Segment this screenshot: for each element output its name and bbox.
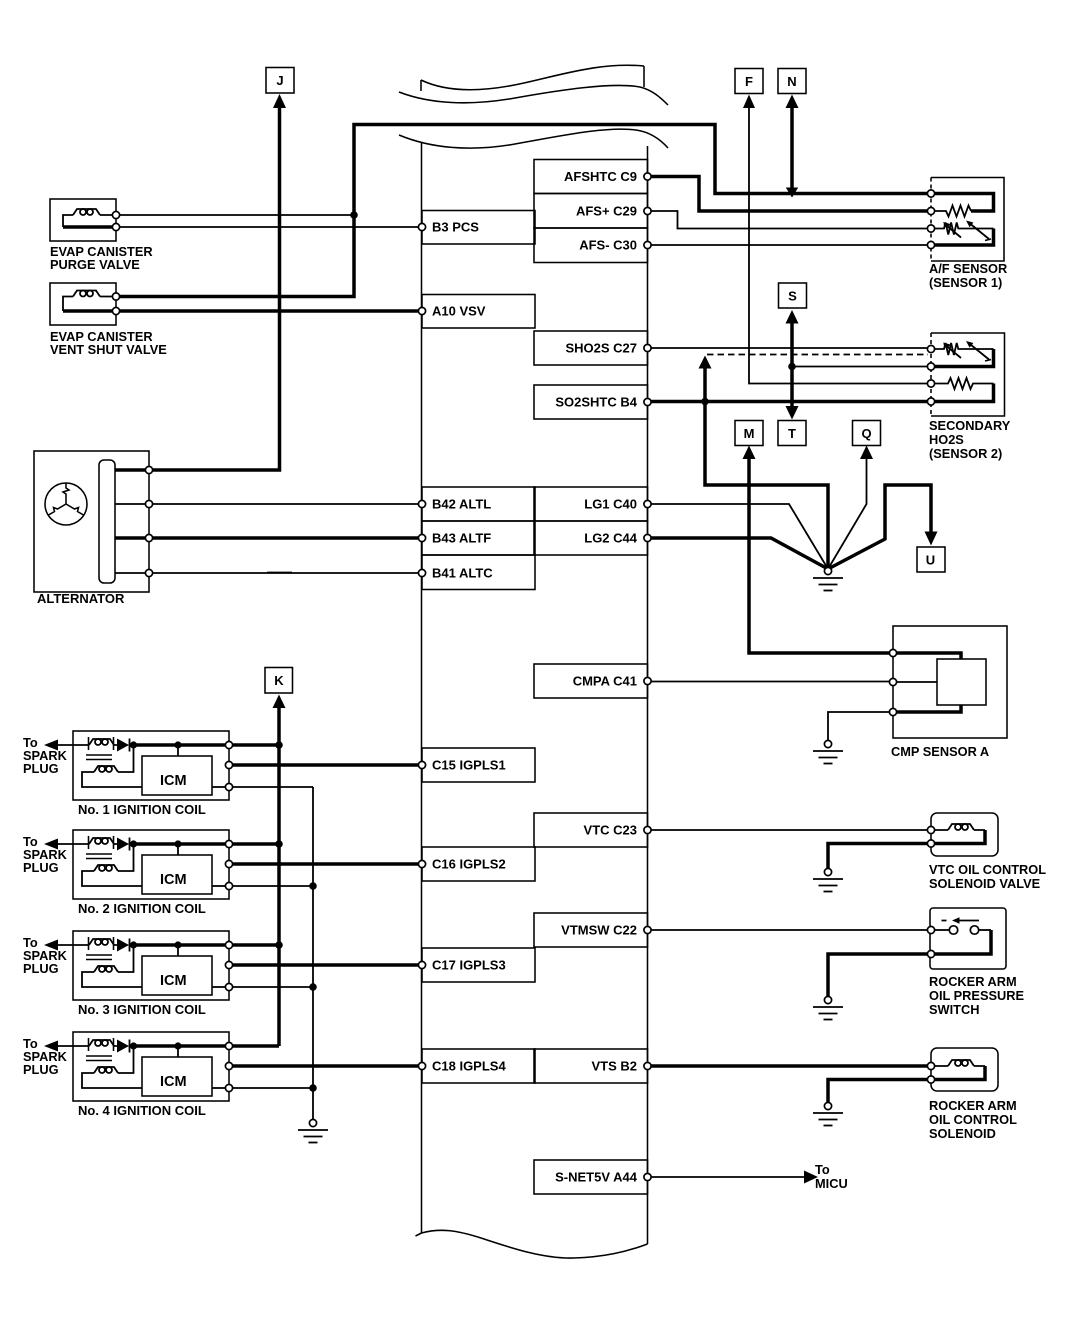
junction coil 2 pin1 / K bus — [275, 840, 283, 848]
ECM body torn top sliver — [399, 65, 668, 105]
svg-text:M: M — [744, 426, 755, 441]
ECM pin box C15 IGPLS1 — [422, 748, 535, 782]
wire F to HO2S pin3 — [749, 105, 927, 384]
wire Q to ground node — [828, 457, 867, 569]
svg-text:VTC OIL CONTROL: VTC OIL CONTROL — [929, 862, 1046, 877]
wire coil 4 pin2 to ECM IGPLS4 (thick) — [233, 1064, 419, 1068]
svg-text:VTS B2: VTS B2 — [591, 1059, 637, 1074]
svg-text:PLUG: PLUG — [23, 761, 59, 776]
svg-text:PLUG: PLUG — [23, 860, 59, 875]
svg-text:B3 PCS: B3 PCS — [432, 220, 479, 235]
ECM pin C9 — [644, 173, 651, 180]
connector J — [266, 68, 294, 109]
connector M — [735, 421, 763, 446]
wire coil 2 pin3 to ground bus — [233, 885, 314, 887]
ECM pin C40 — [644, 500, 651, 507]
ECM pin box C18 IGPLS4 — [422, 1049, 535, 1083]
svg-text:PLUG: PLUG — [23, 961, 59, 976]
svg-text:ROCKER ARM: ROCKER ARM — [929, 974, 1017, 989]
solenoid valve EVAP canister vent shut valve — [50, 283, 167, 357]
ECM pin box B43 ALTF — [422, 521, 535, 555]
ground rocker solenoid — [813, 1102, 843, 1125]
svg-text:ICM: ICM — [160, 1074, 187, 1090]
node To MICU — [815, 1162, 848, 1191]
svg-text:VENT SHUT VALVE: VENT SHUT VALVE — [50, 342, 167, 357]
svg-text:PLUG: PLUG — [23, 1062, 59, 1077]
wire coil 3 pin3 to ground bus — [233, 986, 314, 988]
wire purge valve pin1 to node — [120, 214, 355, 216]
ECM pin box AFS- C30 — [534, 228, 648, 263]
ECM pin box S-NET5V A44 — [534, 1160, 648, 1194]
wire SO2SHTC B4 to HO2S pin4 (thick) — [652, 400, 928, 404]
svg-text:AFS+ C29: AFS+ C29 — [576, 204, 637, 219]
ECM pin box CMPA C41 — [534, 664, 648, 698]
svg-text:SECONDARY: SECONDARY — [929, 418, 1011, 433]
wire coil 4 pin3 to ground bus — [233, 1087, 314, 1089]
svg-text:ICM: ICM — [160, 973, 187, 989]
svg-text:(SENSOR 1): (SENSOR 1) — [929, 275, 1002, 290]
svg-text:AFS- C30: AFS- C30 — [579, 238, 637, 253]
svg-text:ROCKER ARM: ROCKER ARM — [929, 1098, 1017, 1113]
connector T — [778, 421, 806, 446]
shield dashed line — [707, 354, 928, 356]
ECM pin box C16 IGPLS2 — [422, 847, 535, 881]
svg-text:K: K — [274, 673, 284, 688]
junction coil 3 pin3 / ground bus — [309, 983, 317, 991]
solenoid valve EVAP canister purge valve — [50, 199, 153, 272]
ECM pin C41 — [644, 677, 651, 684]
ECM pin box VTMSW C22 — [534, 913, 648, 947]
wire VTS B2 to rocker solenoid (thick) — [652, 1064, 928, 1068]
ECM pin box C17 IGPLS3 — [422, 948, 535, 982]
ECM pin box B42 ALTL — [422, 487, 535, 521]
connector U — [917, 547, 945, 572]
arrow to spark plug No.1 — [44, 740, 58, 751]
svg-text:No. 2 IGNITION COIL: No. 2 IGNITION COIL — [78, 901, 206, 916]
svg-text:B42 ALTL: B42 ALTL — [432, 497, 491, 512]
svg-text:OIL CONTROL: OIL CONTROL — [929, 1112, 1017, 1127]
svg-text:LG2 C44: LG2 C44 — [584, 531, 638, 546]
svg-text:SHO2S C27: SHO2S C27 — [565, 341, 637, 356]
ECM pin B42 — [418, 500, 425, 507]
svg-text:S: S — [788, 289, 797, 304]
wire pressure switch to ground (thick) — [828, 954, 928, 996]
svg-text:ALTERNATOR: ALTERNATOR — [37, 591, 125, 606]
ECM pin box VTS B2 — [534, 1049, 648, 1083]
svg-text:No. 4 IGNITION COIL: No. 4 IGNITION COIL — [78, 1103, 206, 1118]
wire coil 1 pin1 to K bus (thick) — [233, 743, 280, 747]
svg-text:SO2SHTC B4: SO2SHTC B4 — [555, 395, 637, 410]
ECM pin B2 — [644, 1062, 651, 1069]
svg-text:S-NET5V A44: S-NET5V A44 — [555, 1170, 638, 1185]
wire rocker solenoid to ground (thick) — [828, 1080, 928, 1103]
junction S/T line / HO2S pin2 — [788, 363, 796, 371]
connector F — [735, 69, 763, 94]
ECM pin box AFS+ C29 — [534, 194, 648, 229]
ground sensor/logic ground node — [813, 567, 843, 590]
junction purge/vent supply node — [350, 211, 358, 219]
ECM pin box A10 VSV — [422, 295, 535, 329]
connector S — [779, 283, 807, 308]
junction shield branch / SO2SHTC wire — [701, 398, 709, 406]
svg-text:No. 3 IGNITION COIL: No. 3 IGNITION COIL — [78, 1002, 206, 1017]
ground CMP sensor — [813, 740, 843, 763]
wire K bus down ignition coils (thick) — [277, 707, 281, 1046]
CMP sensor A — [889, 626, 1007, 759]
ECM pin A44 — [644, 1173, 651, 1180]
wire VTMSW C22 to pressure switch — [652, 929, 928, 931]
svg-text:F: F — [745, 74, 753, 89]
connector N — [778, 69, 806, 94]
wire AFS+ C29 to A/F sensor pin3 — [652, 211, 928, 229]
svg-text:ICM: ICM — [160, 773, 187, 789]
wire VTC C23 to solenoid valve — [652, 829, 928, 831]
svg-text:HO2S: HO2S — [929, 432, 964, 447]
connector Q — [853, 421, 881, 446]
wire LG2 C44 to ground node (thick) — [652, 538, 829, 569]
svg-text:CMP SENSOR A: CMP SENSOR A — [891, 744, 989, 759]
wire S-NET5V A44 to MICU — [652, 1176, 807, 1178]
svg-text:ICM: ICM — [160, 872, 187, 888]
svg-text:SWITCH: SWITCH — [929, 1002, 979, 1017]
svg-text:Q: Q — [861, 426, 871, 441]
secondary HO2S (sensor 2) — [927, 333, 1010, 461]
svg-text:B41 ALTC: B41 ALTC — [432, 566, 493, 581]
ECM pin C27 — [644, 344, 651, 351]
svg-text:(SENSOR 2): (SENSOR 2) — [929, 446, 1002, 461]
ECM pin C15 — [418, 761, 425, 768]
wire N to heater supply (thick) — [790, 105, 794, 188]
svg-text:A/F SENSOR: A/F SENSOR — [929, 261, 1007, 276]
solenoid rocker arm oil control solenoid — [927, 1048, 1017, 1141]
ECM pin box LG2 C44 — [534, 521, 648, 555]
wire coil 4 pin1 to K bus (thick) — [233, 1044, 280, 1048]
switch rocker arm oil pressure switch — [927, 908, 1024, 1017]
svg-text:C17 IGPLS3: C17 IGPLS3 — [432, 958, 506, 973]
arrow to spark plug No.3 — [44, 940, 58, 951]
ECM pin box SHO2S C27 — [534, 331, 648, 365]
svg-text:N: N — [787, 74, 796, 89]
ignition coil No.3 assembly — [57, 931, 233, 1017]
svg-text:SOLENOID: SOLENOID — [929, 1126, 996, 1141]
wire U from ground node (thick) — [828, 485, 931, 569]
ECM pin box VTC C23 — [534, 813, 648, 847]
ECM pin A10 — [418, 307, 425, 314]
ECM pin C30 — [644, 241, 651, 248]
ground VTC solenoid — [813, 868, 843, 891]
svg-text:OIL PRESSURE: OIL PRESSURE — [929, 988, 1025, 1003]
ECM pin C18 — [418, 1062, 425, 1069]
ECM pin C29 — [644, 207, 651, 214]
ECM pin C22 — [644, 926, 651, 933]
wire shield branch to ground (thick) — [705, 366, 828, 569]
wire coil 3 pin1 to K bus (thick) — [233, 943, 280, 947]
svg-text:C18 IGPLS4: C18 IGPLS4 — [432, 1059, 506, 1074]
junction coil 1 pin1 / K bus — [275, 741, 283, 749]
svg-text:C15 IGPLS1: C15 IGPLS1 — [432, 758, 506, 773]
connector K — [265, 668, 293, 709]
wire HO2S pin2 to S/T line — [792, 366, 927, 368]
svg-text:J: J — [276, 73, 283, 88]
wire coil 3 pin2 to ECM IGPLS3 (thick) — [233, 963, 419, 967]
wire CMP sensor pin3 to ground — [828, 712, 890, 740]
wire S/T double arrow (thick) — [790, 321, 794, 410]
ECM pin B3 — [418, 223, 425, 230]
svg-text:LG1 C40: LG1 C40 — [584, 497, 637, 512]
svg-text:T: T — [788, 426, 796, 441]
solenoid VTC oil control solenoid valve — [927, 813, 1046, 891]
svg-text:C16 IGPLS2: C16 IGPLS2 — [432, 857, 506, 872]
wire purge valve pin2 to ECM B3 PCS — [120, 226, 419, 228]
wire coil 1 pin3 to ground bus — [233, 786, 314, 788]
svg-text:U: U — [926, 553, 935, 568]
wire coil 2 pin2 to ECM IGPLS2 (thick) — [233, 862, 419, 866]
ECM pin box AFSHTC C9 — [534, 160, 648, 194]
wire AFSHTC C9 to A/F sensor pin2 (thick) — [652, 177, 928, 212]
wire vent valve pin1 up and across to A/F sensor pin1 (heater supply) — [120, 125, 928, 297]
wire alternator pin1 to J connector (thick) — [153, 106, 280, 470]
wire CMPA C41 to CMP sensor pin2 — [652, 681, 890, 683]
wire SHO2S C27 to HO2S pin1 — [652, 347, 928, 349]
svg-text:PURGE VALVE: PURGE VALVE — [50, 257, 140, 272]
wire LG1 C40 to ground node — [652, 504, 829, 569]
svg-text:MICU: MICU — [815, 1176, 848, 1191]
svg-text:To: To — [815, 1162, 830, 1177]
ECM pin box LG1 C40 — [534, 487, 648, 521]
wire coil 1 pin2 to ECM IGPLS1 (thick) — [233, 763, 419, 767]
svg-text:A10 VSV: A10 VSV — [432, 304, 486, 319]
svg-text:VTC C23: VTC C23 — [584, 823, 637, 838]
ECM pin C16 — [418, 860, 425, 867]
svg-text:AFSHTC C9: AFSHTC C9 — [564, 169, 637, 184]
junction coil 2 pin3 / ground bus — [309, 882, 317, 890]
ignition coil No.1 assembly — [57, 731, 233, 817]
ECM pin C17 — [418, 961, 425, 968]
svg-text:VTMSW C22: VTMSW C22 — [561, 923, 637, 938]
svg-text:No. 1 IGNITION COIL: No. 1 IGNITION COIL — [78, 802, 206, 817]
arrow to spark plug No.2 — [44, 839, 58, 850]
wire ignition ground bus — [312, 787, 314, 1119]
ECM pin box SO2SHTC B4 — [534, 385, 648, 419]
ECM pin B43 — [418, 534, 425, 541]
wire M to CMP sensor pin1 (thick) — [749, 457, 890, 653]
ECM body main outline — [399, 129, 668, 1258]
wire alternator to ECM B42 ALTL — [153, 503, 419, 505]
svg-text:CMPA C41: CMPA C41 — [573, 674, 637, 689]
svg-text:B43 ALTF: B43 ALTF — [432, 531, 491, 546]
ECM pin B41 — [418, 569, 425, 576]
junction coil 3 pin1 / K bus — [275, 941, 283, 949]
ECM pin C23 — [644, 826, 651, 833]
wire vent shut valve pin2 to ECM A10 VSV (thick) — [120, 309, 419, 313]
A/F sensor (sensor 1) — [927, 178, 1007, 291]
wire alternator to ECM B43 ALTF (thick) — [153, 536, 419, 540]
wire alternator to ECM B41 ALTC — [153, 572, 419, 574]
ground ignition coils — [298, 1119, 328, 1142]
alternator — [34, 451, 153, 606]
wire AFS- C30 to A/F sensor pin4 — [652, 244, 928, 246]
ECM pin C44 — [644, 534, 651, 541]
ignition coil No.4 assembly — [57, 1032, 233, 1118]
junction N line on heater supply — [786, 188, 798, 198]
ECM pin box B41 ALTC — [422, 555, 535, 590]
arrow to spark plug No.4 — [44, 1041, 58, 1052]
wire coil 2 pin1 to K bus (thick) — [233, 842, 280, 846]
ground pressure switch — [813, 996, 843, 1019]
svg-text:SOLENOID VALVE: SOLENOID VALVE — [929, 876, 1041, 891]
ECM pin B4 — [644, 398, 651, 405]
wire VTC solenoid to ground (thick) — [828, 844, 928, 869]
ignition coil No.2 assembly — [57, 830, 233, 916]
junction coil 4 pin3 / ground bus — [309, 1084, 317, 1092]
ECM pin box B3 PCS — [422, 211, 535, 245]
